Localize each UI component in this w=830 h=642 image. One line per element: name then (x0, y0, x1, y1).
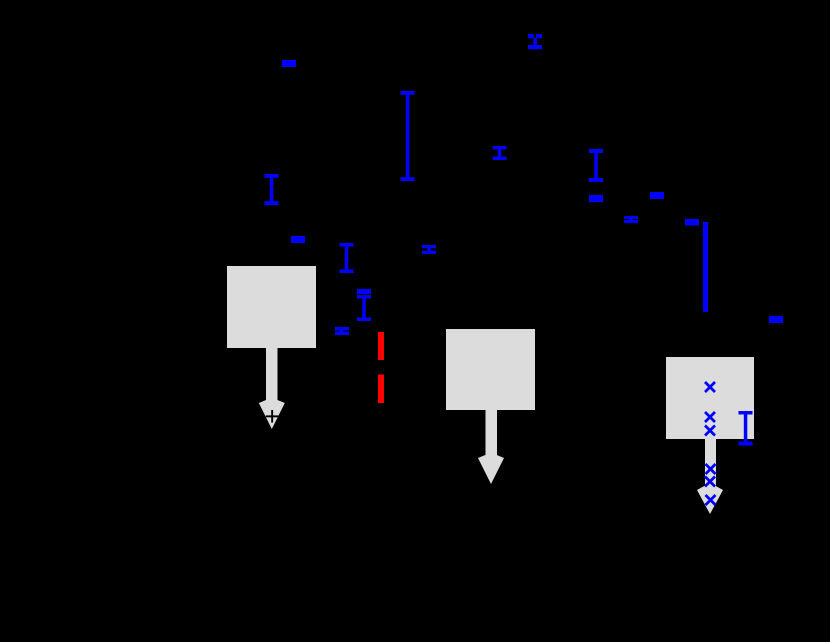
error bar EB2 (528, 34, 542, 49)
thick line EB14 (703, 222, 708, 312)
red dashed line segment 2 (378, 375, 384, 404)
error bar EB16b (357, 295, 371, 321)
upper-limit box B2 (446, 329, 535, 484)
error bar EB11 (340, 243, 354, 273)
X marker M4 (706, 464, 716, 474)
error bar EB16a collapsed (357, 289, 371, 294)
error bar EB1 collapsed (282, 60, 296, 67)
X marker M1 (705, 382, 715, 392)
X marker M3 (705, 426, 715, 436)
error bar EB18 (739, 411, 753, 446)
error bar EB4 (493, 146, 507, 160)
plus notch on EB2 (534, 34, 536, 38)
error bar EB3 (401, 91, 415, 181)
error bar EB5 (265, 174, 279, 205)
error bar EB12 H-shape (422, 245, 436, 254)
X marker M2 (705, 412, 715, 422)
error bar EB9 collapsed (291, 236, 305, 243)
upper-limit box B3 (666, 357, 754, 514)
error bar EB10 H-shape (624, 216, 638, 223)
plus marker P1 on arrow B1 (266, 410, 279, 423)
X marker M5 (705, 477, 715, 487)
error bar EB6 (589, 149, 603, 182)
error bar EB13 collapsed (685, 219, 699, 226)
error bar EB15 H-shape (335, 327, 349, 335)
error bar EB7 collapsed (589, 195, 603, 202)
error bar EB17 collapsed (769, 316, 783, 323)
red dashed line segment 1 (378, 332, 384, 360)
X marker M6 (706, 495, 716, 505)
error bar EB8 collapsed (650, 192, 664, 199)
upper-limit box B1 (227, 266, 316, 429)
